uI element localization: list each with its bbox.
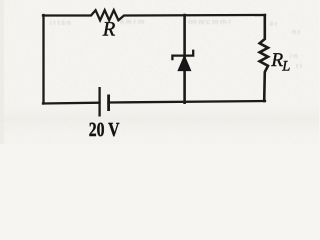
svg-text:20 V: 20 V	[89, 119, 120, 141]
svg-text:r i: r i	[296, 62, 302, 70]
svg-text:L: L	[281, 58, 290, 74]
svg-text:n m r rn: n m r rn	[120, 19, 144, 26]
svg-text:rrn nr:c rn rn r: rrn nr:c rn rn r	[188, 19, 231, 26]
svg-text:ii r: ii r	[270, 20, 278, 28]
svg-text:i n: i n	[290, 52, 298, 60]
svg-text:R: R	[102, 19, 116, 41]
svg-text:n r: n r	[292, 29, 301, 36]
svg-text:i r t ii n: i r t ii n	[50, 19, 71, 27]
